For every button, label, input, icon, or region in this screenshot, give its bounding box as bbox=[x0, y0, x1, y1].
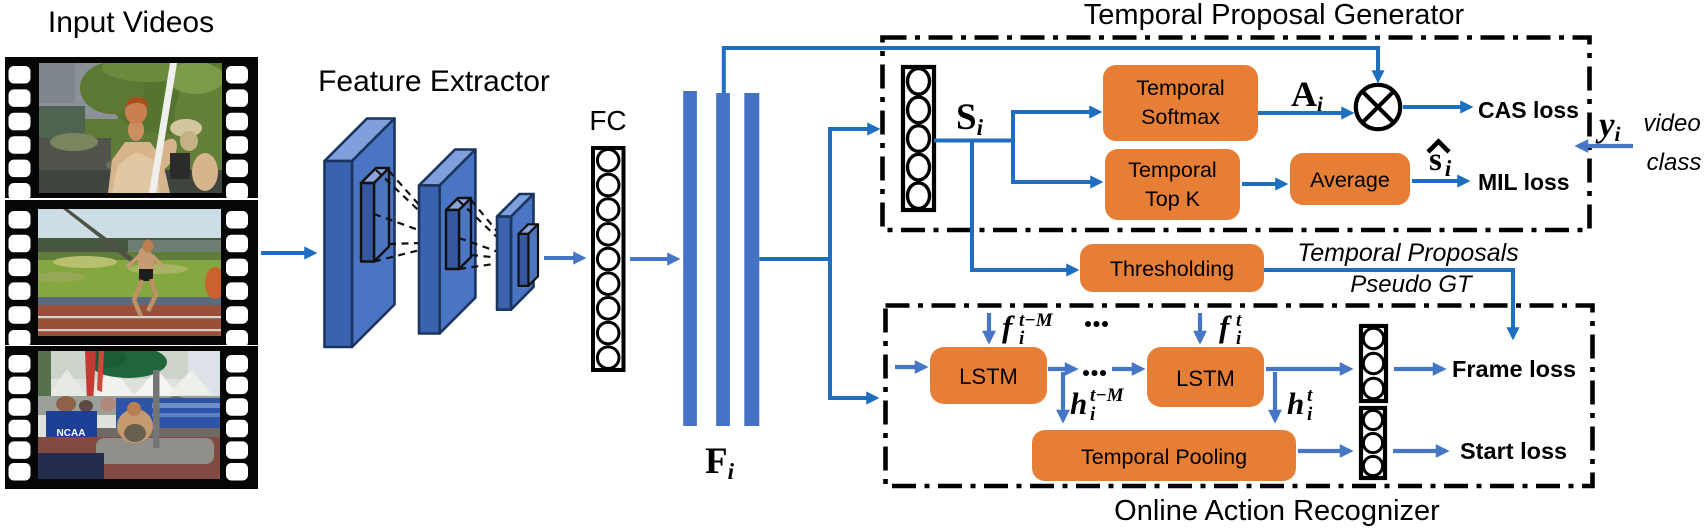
svg-text:i: i bbox=[1307, 404, 1313, 425]
wire: multiplier to CAS loss bbox=[1403, 105, 1470, 109]
svg-text:LSTM: LSTM bbox=[959, 364, 1018, 389]
wire: S_i fanout to softmax and top-k bbox=[934, 112, 1099, 141]
box: Temporal Proposal Generator bbox=[883, 38, 1590, 231]
S_i score vector column bbox=[903, 67, 934, 210]
block: LSTM 1 bbox=[930, 347, 1047, 404]
svg-text:h: h bbox=[1287, 386, 1304, 421]
svg-text:Softmax: Softmax bbox=[1141, 105, 1220, 129]
svg-text:Fi: Fi bbox=[705, 441, 735, 484]
block: Average bbox=[1290, 153, 1410, 205]
label: dots between LSTMs bbox=[1083, 370, 1106, 376]
wire: h output of LSTM2 down to pooling bbox=[1273, 372, 1277, 420]
svg-text:Frame loss: Frame loss bbox=[1452, 356, 1576, 382]
svg-text:Temporal Proposals: Temporal Proposals bbox=[1297, 239, 1518, 267]
svg-text:LSTM: LSTM bbox=[1176, 366, 1235, 391]
block: LSTM 2 bbox=[1147, 347, 1264, 407]
svg-text:class: class bbox=[1647, 149, 1702, 176]
wire: slab3 to FC layer bbox=[544, 256, 583, 260]
svg-text:Start loss: Start loss bbox=[1460, 438, 1567, 464]
svg-text:yi: yi bbox=[1595, 105, 1621, 146]
photo: javelin thrower frame bbox=[39, 50, 242, 193]
wire: bus branch to S_i column bbox=[828, 127, 877, 131]
svg-text:i: i bbox=[1090, 404, 1096, 425]
FC vector column bbox=[593, 148, 624, 370]
wire: column to Start loss bbox=[1393, 449, 1446, 453]
wire: bus branch to online action recognizer bbox=[828, 396, 876, 400]
cnn slab 3 bbox=[497, 194, 534, 310]
svg-text:MIL loss: MIL loss bbox=[1478, 169, 1570, 195]
wire: f input to LSTM 2 bbox=[1198, 313, 1202, 341]
svg-text:Temporal: Temporal bbox=[1136, 76, 1224, 100]
cnn slab 1 bbox=[325, 119, 395, 348]
Fi feature bar 2 bbox=[716, 93, 730, 426]
feature patch on slab 1 bbox=[361, 168, 389, 262]
wire: top k to average bbox=[1242, 182, 1285, 186]
svg-text:Thresholding: Thresholding bbox=[1110, 257, 1234, 281]
svg-text:Si: Si bbox=[956, 97, 984, 140]
svg-text:Temporal Pooling: Temporal Pooling bbox=[1081, 445, 1247, 469]
svg-text:Feature Extractor: Feature Extractor bbox=[318, 65, 550, 98]
wire: top rail from bar2 to multiplier bbox=[724, 48, 1378, 93]
block: Temporal Pooling bbox=[1032, 430, 1296, 481]
wire: dots to LSTM2 bbox=[1112, 367, 1142, 371]
wire: into LSTM 1 bbox=[895, 365, 925, 369]
wire: softmax to multiplier bbox=[1258, 111, 1351, 115]
feature patch on slab 2 bbox=[446, 198, 471, 269]
wire: LSTM2 to frame-loss column bbox=[1266, 367, 1350, 371]
photo: sprinting athlete frame bbox=[35, 209, 225, 336]
svg-text:f: f bbox=[1219, 309, 1232, 344]
photo: high jump landing frame bbox=[38, 346, 220, 479]
wire: average to MIL loss bbox=[1412, 179, 1467, 183]
svg-text:Top K: Top K bbox=[1145, 187, 1201, 211]
feature patch on slab 3 bbox=[519, 224, 539, 286]
svg-text:Ai: Ai bbox=[1291, 74, 1323, 116]
wire: f input to LSTM 1 bbox=[987, 313, 991, 341]
svg-text:Online Action Recognizer: Online Action Recognizer bbox=[1114, 495, 1440, 527]
svg-text:t−M: t−M bbox=[1090, 385, 1125, 406]
wire: branch to temporal top k bbox=[1013, 141, 1100, 183]
svg-text:i: i bbox=[1019, 328, 1025, 349]
svg-text:CAS loss: CAS loss bbox=[1478, 97, 1579, 123]
start-loss vector column bbox=[1361, 408, 1385, 478]
wire: S_i drop to thresholding bbox=[972, 142, 1076, 270]
svg-text:f: f bbox=[1002, 309, 1015, 344]
block: Temporal Top K bbox=[1105, 149, 1240, 220]
wire: thresholding to pseudo GT drop bbox=[1264, 270, 1513, 337]
wire: temporal pooling to start-loss column bbox=[1298, 449, 1350, 453]
svg-text:i: i bbox=[1236, 328, 1242, 349]
svg-text:h: h bbox=[1070, 386, 1087, 421]
wire: h output of LSTM1 down to pooling bbox=[1061, 372, 1065, 420]
svg-text:t: t bbox=[1307, 385, 1313, 406]
wire: video frames to feature extractor bbox=[261, 251, 314, 255]
Fi feature bar 1 bbox=[683, 91, 697, 426]
wire: Fi bus trunk bbox=[759, 257, 830, 261]
svg-text:Temporal Proposal Generator: Temporal Proposal Generator bbox=[1084, 0, 1465, 31]
multiplier (circled times) bbox=[1356, 85, 1400, 129]
cnn slab 2 bbox=[419, 150, 475, 334]
svg-text:video: video bbox=[1643, 110, 1700, 137]
film strip segment 2 bbox=[5, 200, 258, 348]
wire: video class into generator bbox=[1578, 144, 1633, 148]
wire: column to Frame loss bbox=[1394, 367, 1443, 371]
Fi feature bar 3 bbox=[744, 93, 759, 426]
box: Online Action Recognizer bbox=[886, 306, 1593, 487]
block: Temporal Softmax bbox=[1103, 65, 1258, 141]
frame-loss vector column bbox=[1361, 326, 1386, 401]
svg-text:Input Videos: Input Videos bbox=[48, 6, 214, 39]
film strip segment 1 bbox=[5, 57, 258, 201]
svg-text:Average: Average bbox=[1310, 168, 1390, 192]
film strip segment 3 bbox=[5, 346, 258, 489]
dashed fan: patch2 to patch3 bbox=[458, 200, 521, 269]
wire: LSTM1 to dots bbox=[1048, 367, 1075, 371]
block: Thresholding bbox=[1080, 244, 1264, 292]
svg-text:FC: FC bbox=[589, 105, 626, 136]
svg-text:Temporal: Temporal bbox=[1128, 158, 1216, 182]
wire: FC to Fi bars bbox=[630, 257, 677, 261]
svg-text:Pseudo GT: Pseudo GT bbox=[1350, 271, 1474, 298]
dashed fan: patch1 to patch2 bbox=[374, 170, 452, 262]
label: dots top bbox=[1085, 321, 1108, 327]
